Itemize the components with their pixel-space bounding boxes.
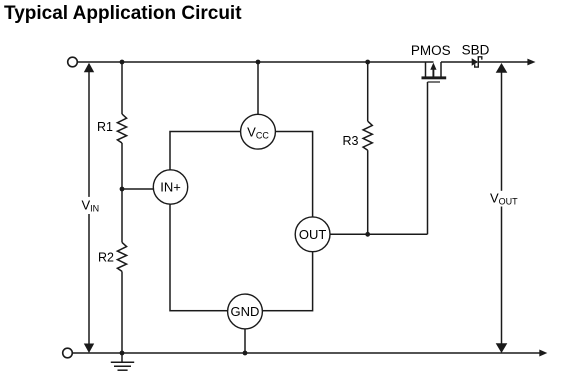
svg-text:VOUT: VOUT	[490, 191, 518, 207]
svg-text:R3: R3	[343, 134, 359, 148]
svg-text:R2: R2	[98, 251, 114, 265]
svg-text:PMOS: PMOS	[411, 43, 451, 58]
svg-text:OUT: OUT	[299, 227, 327, 242]
svg-text:GND: GND	[231, 304, 260, 319]
svg-text:IN+: IN+	[160, 180, 181, 195]
svg-text:VIN: VIN	[82, 198, 100, 214]
svg-text:SBD: SBD	[462, 43, 490, 58]
svg-text:R1: R1	[97, 120, 113, 134]
svg-text:Typical Application Circuit: Typical Application Circuit	[4, 3, 242, 24]
